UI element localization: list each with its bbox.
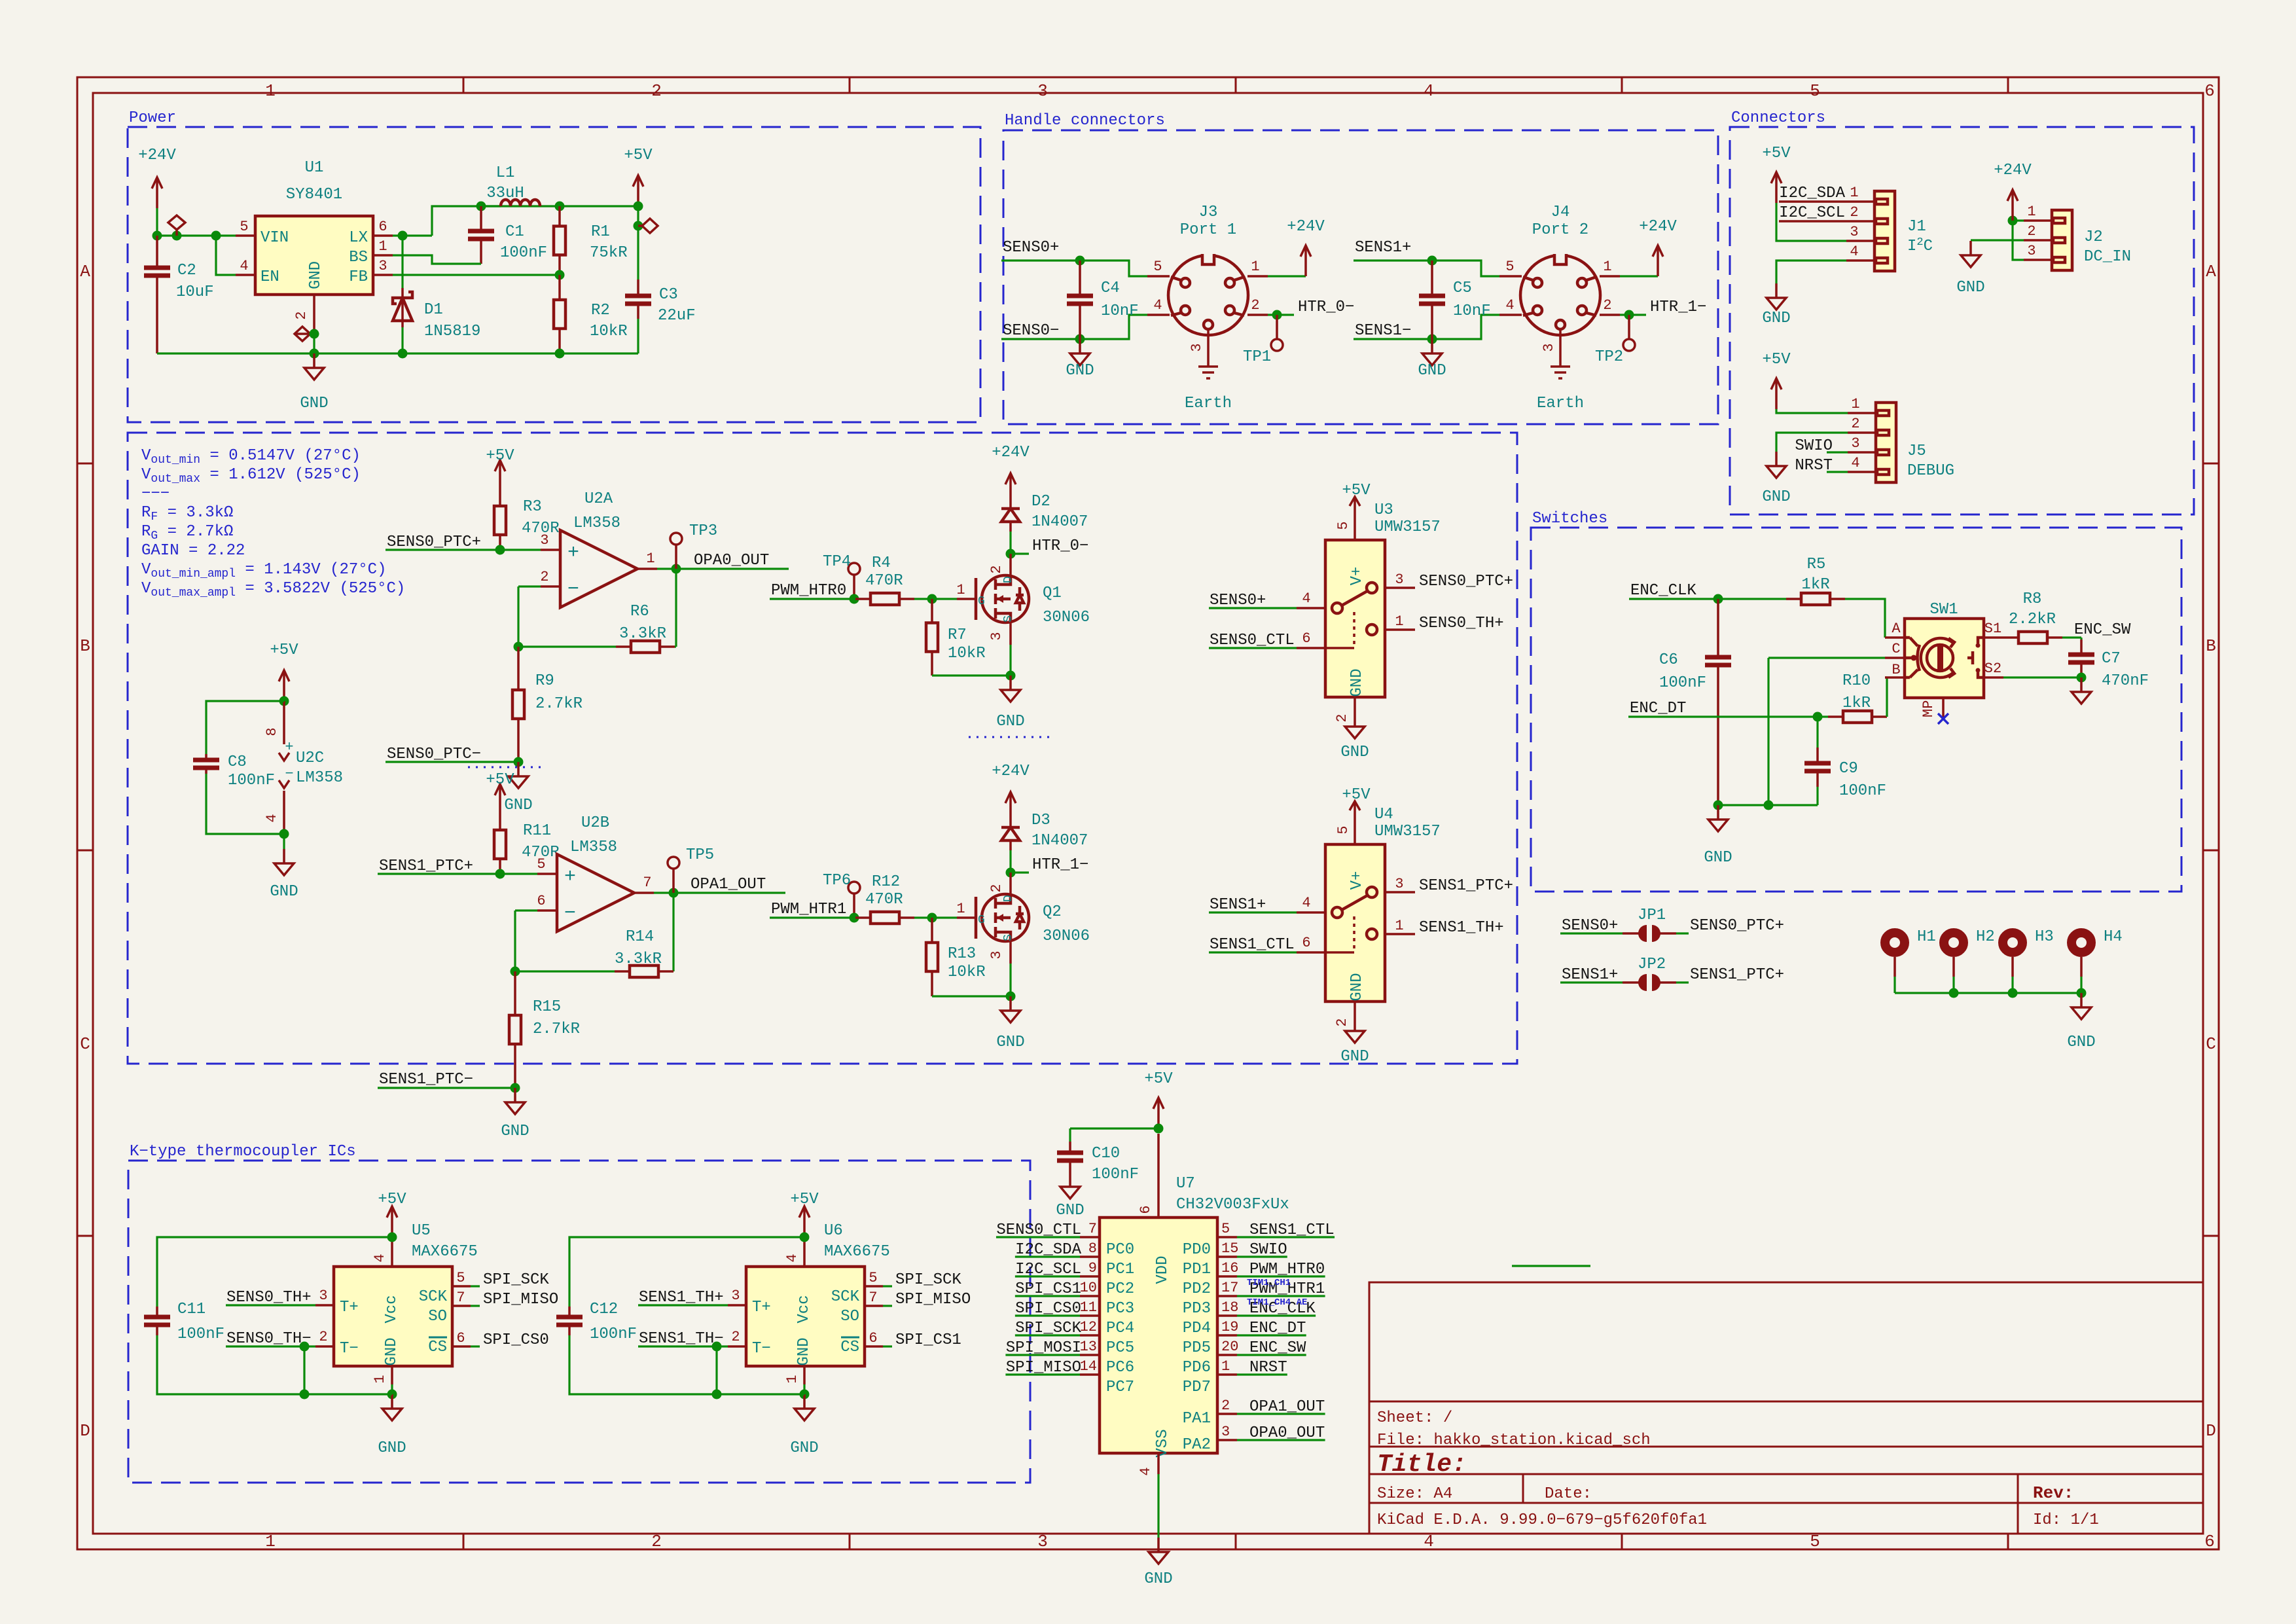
net label HTR_1- node (1006, 856, 1089, 878)
svg-text:C: C (80, 1034, 90, 1054)
svg-text:SENS0+: SENS0+ (1003, 239, 1059, 257)
svg-text:U7: U7 (1176, 1175, 1195, 1193)
svg-text:B: B (2206, 636, 2216, 656)
svg-text:+5V: +5V (1144, 1070, 1173, 1088)
svg-text:PD1: PD1 (1183, 1261, 1211, 1278)
svg-text:R15: R15 (533, 998, 561, 1016)
svg-text:J1: J1 (1907, 218, 1926, 236)
svg-text:2: 2 (651, 1532, 662, 1551)
svg-text:3.3kR: 3.3kR (615, 950, 662, 968)
svg-text:H4: H4 (2104, 928, 2123, 946)
svg-text:GND: GND (300, 395, 328, 412)
ground GND below C7 (2072, 677, 2091, 704)
wire R4 to gate (914, 582, 965, 604)
svg-text:75kR: 75kR (590, 244, 628, 262)
test point TP3 (670, 522, 717, 569)
svg-text:2: 2 (1851, 416, 1859, 432)
title block frame (1369, 1282, 2203, 1534)
svg-text:+24V: +24V (138, 147, 176, 164)
resistor R15 2.7kR (509, 971, 580, 1088)
svg-text:5: 5 (1810, 81, 1820, 101)
svg-text:2.2kR: 2.2kR (2009, 611, 2056, 628)
svg-text:PWM_HTR0: PWM_HTR0 (771, 582, 846, 600)
svg-text:Connectors: Connectors (1731, 109, 1825, 127)
svg-text:SPI_MISO: SPI_MISO (483, 1291, 558, 1308)
svg-text:30N06: 30N06 (1043, 928, 1090, 945)
op-amp U2B LM358 (537, 814, 654, 931)
svg-text:6: 6 (2204, 81, 2215, 101)
wire U5 T- to ground rail (300, 1342, 310, 1399)
svg-text:22uF: 22uF (658, 307, 696, 325)
net label SWIO at J5 pin 3 (1795, 437, 1848, 455)
svg-text:SPI_CS0: SPI_CS0 (1015, 1300, 1081, 1318)
svg-text:C4: C4 (1101, 280, 1120, 297)
power flag PWR_FLAG on +24V (168, 215, 185, 236)
capacitor C8 100nF (193, 701, 284, 834)
svg-text:H1: H1 (1917, 928, 1936, 946)
svg-text:4: 4 (1302, 895, 1310, 911)
transistor Q1 30N06 (957, 554, 1090, 676)
svg-text:SENS0_TH+: SENS0_TH+ (226, 1289, 312, 1307)
svg-text:470R: 470R (865, 572, 903, 590)
svg-text:C9: C9 (1839, 760, 1858, 778)
svg-text:PD2: PD2 (1183, 1280, 1211, 1298)
power symbol +24V at J4 pin 1 (1620, 218, 1677, 276)
svg-text:+: + (567, 542, 579, 564)
svg-text:2: 2 (651, 81, 662, 101)
connector J1 I2C (1846, 185, 1933, 271)
svg-text:1: 1 (265, 1532, 276, 1551)
svg-text:C10: C10 (1092, 1145, 1120, 1163)
svg-text:U2A: U2A (584, 490, 613, 508)
svg-text:LM358: LM358 (570, 839, 617, 856)
net label ENC_SW and wire (2062, 621, 2131, 639)
svg-text:PC4: PC4 (1106, 1320, 1134, 1337)
svg-text:TIM1_CH1: TIM1_CH1 (1247, 1278, 1291, 1288)
svg-text:SENS0_CTL: SENS0_CTL (1210, 632, 1295, 649)
power symbol +24V (power input) (138, 147, 176, 208)
svg-text:470nF: 470nF (2102, 672, 2149, 690)
svg-text:Port 2: Port 2 (1532, 221, 1588, 239)
svg-text:PA2: PA2 (1183, 1436, 1211, 1454)
svg-text:SENS1_CTL: SENS1_CTL (1210, 936, 1295, 954)
svg-text:CH32V003FxUx: CH32V003FxUx (1176, 1196, 1289, 1214)
svg-text:VSS: VSS (1154, 1429, 1172, 1457)
svg-text:C1: C1 (505, 223, 524, 241)
frame column labels (265, 81, 2215, 1551)
svg-text:4: 4 (784, 1254, 800, 1262)
svg-text:4: 4 (264, 814, 280, 822)
svg-text:PWM_HTR1: PWM_HTR1 (771, 901, 846, 918)
svg-text:SENS0_TH−: SENS0_TH− (226, 1330, 312, 1348)
svg-text:Power: Power (129, 109, 176, 127)
svg-text:GND: GND (2067, 1034, 2095, 1051)
svg-text:ENC_SW: ENC_SW (1249, 1339, 1306, 1357)
power symbol +24V at J3 pin 1 (1268, 218, 1325, 276)
svg-text:GND: GND (1762, 310, 1790, 327)
svg-text:TP6: TP6 (823, 872, 851, 890)
svg-text:SENS1_CTL: SENS1_CTL (1249, 1221, 1335, 1239)
capacitor C12 100nF (556, 1237, 804, 1394)
net label I2C_SDA wire at J1 pin 1 (1779, 185, 1846, 202)
ground GND channel 1 driver (996, 996, 1024, 1051)
svg-text:R12: R12 (872, 873, 900, 891)
net label SENS1_PTC+ and wire (378, 857, 537, 879)
svg-text:16: 16 (1221, 1260, 1238, 1276)
svg-text:J4: J4 (1551, 204, 1570, 221)
svg-text:U6: U6 (824, 1222, 843, 1240)
svg-text:SENS1+: SENS1+ (1355, 239, 1411, 257)
svg-text:7: 7 (1088, 1221, 1097, 1237)
svg-text:G: G (978, 595, 985, 608)
svg-text:SCK: SCK (831, 1288, 860, 1306)
svg-text:B: B (1892, 662, 1900, 678)
svg-text:6: 6 (1138, 1205, 1154, 1214)
net label ENC_DT and wire (1628, 700, 1828, 722)
svg-text:SENS1_PTC+: SENS1_PTC+ (379, 857, 473, 875)
svg-text:1: 1 (1851, 396, 1859, 412)
svg-text:CS: CS (428, 1339, 447, 1356)
resistor R7 10kR gate pulldown (926, 599, 986, 676)
svg-text:SENS1_PTC−: SENS1_PTC− (379, 1071, 473, 1089)
svg-text:GND: GND (501, 1123, 529, 1140)
power symbol +5V at J1 pin 3 (1762, 145, 1846, 241)
svg-text:R3: R3 (523, 498, 542, 516)
svg-text:C12: C12 (590, 1301, 618, 1318)
svg-text:1N4007: 1N4007 (1031, 513, 1088, 531)
alternate pin function TIM1_CH1 label (1247, 1278, 1291, 1288)
svg-text:−: − (567, 579, 579, 601)
svg-text:U3: U3 (1374, 501, 1393, 519)
thermocouple IC U5 MAX6675 (226, 1191, 558, 1457)
svg-text:SENS1−: SENS1− (1355, 322, 1411, 340)
title block texts (1377, 1409, 2099, 1529)
svg-text:PD3: PD3 (1183, 1300, 1211, 1318)
svg-text:6: 6 (378, 219, 387, 235)
svg-text:Vcc: Vcc (795, 1295, 813, 1323)
svg-text:4: 4 (1302, 590, 1310, 607)
svg-text:1: 1 (265, 81, 276, 101)
jumper JP2 (1560, 956, 1784, 991)
svg-text:5: 5 (240, 219, 248, 235)
svg-text:SENS0_CTL: SENS0_CTL (996, 1221, 1081, 1239)
svg-text:100nF: 100nF (1092, 1166, 1139, 1183)
resistor R1 75kR (554, 206, 628, 275)
svg-text:2: 2 (1221, 1398, 1230, 1414)
net label I2C_SCL wire at J1 pin 2 (1779, 204, 1846, 222)
svg-text:2: 2 (1334, 1018, 1350, 1026)
net label SENS0- and wire to J3 pin 4 (1001, 315, 1147, 344)
svg-text:C: C (1892, 641, 1900, 657)
svg-text:LX: LX (349, 229, 368, 247)
svg-text:3: 3 (988, 950, 1005, 959)
resistor R13 10kR gate pulldown (926, 918, 986, 996)
svg-text:S: S (1002, 615, 1015, 623)
svg-text:SPI_MISO: SPI_MISO (895, 1291, 971, 1308)
svg-text:100nF: 100nF (177, 1326, 224, 1343)
svg-text:SPI_MISO: SPI_MISO (1006, 1359, 1081, 1377)
svg-text:14: 14 (1080, 1358, 1097, 1375)
mounting hole H3 (2003, 928, 2054, 993)
connector J4 Port 2 (1499, 204, 1620, 412)
svg-text:SPI_SCK: SPI_SCK (895, 1271, 961, 1289)
net label SENS1_PTC- and wire (378, 1071, 520, 1093)
svg-text:7: 7 (456, 1290, 465, 1306)
svg-text:1: 1 (1395, 613, 1403, 630)
transistor Q2 30N06 (957, 873, 1090, 996)
svg-text:C5: C5 (1453, 280, 1472, 297)
wire HTR_1- from J4 pin 2 with test point TP2 (1595, 298, 1706, 366)
capacitor C2 (144, 236, 214, 353)
svg-text:PC0: PC0 (1106, 1241, 1134, 1259)
svg-text:T−: T− (752, 1340, 771, 1358)
net label PWM_HTR1 and gate wire (770, 901, 855, 918)
resistor R10 1kR (1828, 672, 1887, 723)
svg-text:R14: R14 (626, 928, 654, 946)
svg-text:SPI_MOSI: SPI_MOSI (1006, 1339, 1081, 1357)
diode D1 1N5819 (393, 236, 480, 353)
ground GND below C10 (1056, 1172, 1084, 1219)
diode D3 1N4007 (1001, 812, 1088, 873)
svg-text:+24V: +24V (992, 444, 1030, 461)
svg-text:+5V: +5V (790, 1191, 819, 1208)
svg-text:1: 1 (956, 901, 965, 917)
section box Power (128, 109, 980, 422)
svg-text:D: D (2206, 1421, 2216, 1441)
svg-text:100nF: 100nF (500, 244, 547, 262)
svg-text:OPA1_OUT: OPA1_OUT (1249, 1398, 1325, 1416)
mounting hole H1 (1885, 928, 1936, 993)
svg-text:GND: GND (1348, 973, 1366, 1001)
wire mounting hole ground bus (1895, 988, 2087, 998)
svg-text:4: 4 (1505, 297, 1514, 314)
svg-text:+5V: +5V (1762, 351, 1791, 369)
mounting hole H2 (1944, 928, 1995, 993)
wire feedback node U2B (511, 893, 674, 977)
wire ground rail of power section (157, 349, 638, 359)
svg-text:R13: R13 (948, 945, 976, 963)
svg-text:15: 15 (1221, 1240, 1238, 1257)
svg-text:2: 2 (731, 1329, 740, 1345)
svg-text:3: 3 (378, 258, 387, 274)
svg-text:VIN: VIN (260, 229, 289, 247)
svg-text:5: 5 (1810, 1532, 1820, 1551)
svg-text:+24V: +24V (992, 763, 1030, 780)
svg-text:4: 4 (240, 258, 248, 274)
svg-text:LM358: LM358 (573, 514, 620, 532)
wire feedback node U2A (514, 569, 677, 652)
svg-text:SENS0_TH+: SENS0_TH+ (1419, 615, 1504, 632)
svg-text:Size: A4: Size: A4 (1377, 1485, 1452, 1503)
svg-text:SPI_CS1: SPI_CS1 (895, 1331, 961, 1349)
wire U6 T- to ground rail (712, 1342, 722, 1399)
svg-text:5: 5 (1221, 1221, 1230, 1237)
svg-text:R7: R7 (948, 626, 967, 644)
svg-text:OPA0_OUT: OPA0_OUT (1249, 1424, 1325, 1442)
svg-text:3: 3 (2027, 243, 2036, 259)
svg-text:U5: U5 (412, 1222, 431, 1240)
svg-text:100nF: 100nF (1839, 782, 1886, 800)
svg-text:D: D (1002, 895, 1015, 902)
test point TP5 (668, 846, 714, 893)
svg-text:G: G (978, 914, 985, 927)
svg-text:+5V: +5V (1342, 786, 1371, 804)
svg-text:SW1: SW1 (1929, 601, 1958, 619)
svg-text:L1: L1 (496, 164, 515, 182)
svg-text:SENS1_PTC+: SENS1_PTC+ (1690, 966, 1784, 984)
svg-text:TP3: TP3 (689, 522, 717, 540)
svg-text:S2: S2 (1984, 660, 2001, 677)
net label NRST at J5 pin 4 (1795, 457, 1848, 475)
svg-text:470R: 470R (865, 891, 903, 909)
svg-text:SO: SO (840, 1308, 859, 1326)
svg-text:V+: V+ (1348, 871, 1366, 890)
svg-text:1: 1 (784, 1375, 800, 1383)
wire SW1 pin C (1768, 658, 1885, 805)
svg-text:PD0: PD0 (1183, 1241, 1211, 1259)
svg-text:GND: GND (1066, 362, 1094, 380)
svg-text:3: 3 (1221, 1424, 1230, 1440)
ground GND at J5 pin 2 (1762, 433, 1848, 506)
svg-text:U2C: U2C (296, 749, 324, 767)
svg-text:HTR_0−: HTR_0− (1032, 537, 1088, 555)
svg-text:13: 13 (1080, 1339, 1097, 1355)
svg-text:+5V: +5V (1762, 145, 1791, 162)
op-amp U2A LM358 (540, 490, 657, 607)
svg-text:+5V: +5V (1342, 482, 1371, 499)
net label SENS1- and wire to J4 pin 4 (1354, 315, 1499, 344)
svg-text:D2: D2 (1031, 493, 1050, 511)
wire J2 pin 3 to +24V (2013, 221, 2024, 260)
svg-text:R9: R9 (535, 672, 554, 690)
svg-text:GND: GND (1340, 744, 1369, 761)
capacitor C1 bootstrap (468, 206, 547, 264)
svg-text:4: 4 (1153, 297, 1162, 314)
svg-text:1: 1 (1251, 259, 1259, 275)
wire SW1 S2 to C7 (2003, 673, 2087, 683)
svg-text:4: 4 (1850, 244, 1858, 260)
svg-text:1: 1 (646, 550, 655, 567)
svg-text:GND: GND (790, 1439, 818, 1457)
svg-text:Vcc: Vcc (383, 1295, 401, 1323)
svg-text:+5V: +5V (378, 1191, 406, 1208)
svg-text:HTR_0−: HTR_0− (1298, 298, 1354, 316)
svg-text:TP4: TP4 (823, 553, 851, 571)
net label SENS0+ and wire to J3 pin 5 (1001, 239, 1147, 276)
regulator U1 SY8401 (236, 159, 393, 334)
svg-text:2: 2 (293, 311, 310, 319)
svg-text:OPA1_OUT: OPA1_OUT (691, 876, 766, 893)
power flag PWR_FLAG on +5V (638, 219, 658, 233)
svg-text:10uF: 10uF (176, 283, 214, 301)
svg-text:6: 6 (456, 1330, 465, 1346)
svg-text:J3: J3 (1199, 204, 1218, 221)
svg-text:4: 4 (1424, 1532, 1434, 1551)
svg-text:NRST: NRST (1249, 1359, 1287, 1377)
svg-text:Id: 1/1: Id: 1/1 (2033, 1511, 2099, 1529)
svg-text:V+: V+ (1348, 567, 1366, 586)
svg-text:PC3: PC3 (1106, 1300, 1134, 1318)
svg-text:2: 2 (1603, 297, 1611, 314)
resistor R2 10kR (554, 275, 628, 353)
svg-text:I2C_SDA: I2C_SDA (1015, 1241, 1081, 1259)
svg-text:Sheet: /: Sheet: / (1377, 1409, 1452, 1427)
svg-text:GND: GND (1956, 279, 1984, 297)
svg-text:GND: GND (1340, 1048, 1369, 1066)
thermocouple IC U6 MAX6675 (638, 1191, 971, 1457)
wire LX node (393, 202, 638, 241)
section box Switches (1531, 510, 2181, 892)
svg-text:+: + (564, 866, 576, 888)
svg-text:GND: GND (504, 797, 532, 814)
svg-text:R5: R5 (1807, 556, 1826, 573)
svg-text:T+: T+ (340, 1299, 359, 1316)
svg-text:2: 2 (1334, 713, 1350, 722)
ground GND at J1 pin 4 (1762, 261, 1846, 327)
svg-text:5: 5 (537, 856, 545, 873)
svg-text:D: D (80, 1421, 90, 1441)
ground GND below U2C (270, 829, 298, 901)
resistor R3 470R (494, 491, 560, 550)
svg-text:5: 5 (456, 1270, 465, 1286)
svg-text:SENS1+: SENS1+ (1562, 966, 1618, 984)
frame row ticks (77, 463, 2219, 1236)
svg-text:−: − (285, 766, 293, 782)
power symbol +5V at U2C (270, 641, 298, 706)
svg-text:I2C_SCL: I2C_SCL (1015, 1261, 1081, 1278)
svg-text:+5V: +5V (486, 771, 514, 789)
wire switches ground rail (1713, 801, 1818, 810)
svg-text:17: 17 (1221, 1280, 1238, 1296)
svg-text:PC7: PC7 (1106, 1379, 1134, 1396)
resistor R8 2.2kR (2003, 590, 2062, 643)
svg-text:D1: D1 (424, 301, 443, 319)
svg-text:3: 3 (1189, 343, 1205, 352)
svg-text:SENS0−: SENS0− (1003, 322, 1059, 340)
wire OPA1_OUT output (654, 876, 785, 898)
svg-text:GND: GND (307, 261, 325, 289)
svg-text:PD4: PD4 (1183, 1320, 1211, 1337)
svg-text:EN: EN (260, 268, 279, 286)
svg-text:20: 20 (1221, 1339, 1238, 1355)
svg-text:VDD: VDD (1154, 1255, 1172, 1284)
power symbol +5V at J5 pin 1 (1762, 351, 1848, 413)
svg-text:MAX6675: MAX6675 (824, 1243, 890, 1261)
svg-text:R11: R11 (523, 822, 551, 840)
connector J2 DC_IN (2024, 204, 2131, 270)
svg-text:3: 3 (1395, 571, 1403, 588)
svg-text:ENC_DT: ENC_DT (1630, 700, 1686, 717)
svg-text:SENS0+: SENS0+ (1210, 592, 1266, 609)
svg-text:7: 7 (869, 1290, 877, 1306)
svg-text:SWIO: SWIO (1249, 1241, 1287, 1259)
power flag PWR_FLAG on U1 GND (295, 327, 314, 341)
power symbol +5V output (624, 147, 653, 211)
ground GND below C5 (1418, 339, 1446, 380)
svg-text:ENC_DT: ENC_DT (1249, 1320, 1306, 1337)
svg-text:GND: GND (996, 713, 1024, 731)
power symbol +24V at D3 (992, 763, 1030, 823)
dotted separator line middle (969, 736, 1054, 738)
svg-text:3: 3 (540, 532, 548, 549)
svg-text:Handle connectors: Handle connectors (1005, 112, 1165, 130)
svg-text:3: 3 (1850, 224, 1858, 240)
resistor R5 1kR (1786, 556, 1845, 605)
svg-text:1: 1 (1221, 1358, 1230, 1375)
op-amp U2C LM358 power unit (264, 701, 343, 834)
svg-text:R4: R4 (872, 554, 891, 572)
svg-text:10kR: 10kR (948, 645, 986, 662)
